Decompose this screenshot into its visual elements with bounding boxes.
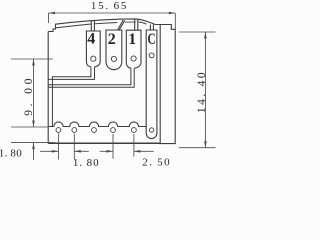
svg-text:14. 40: 14. 40 — [196, 70, 208, 113]
svg-text:2. 50: 2. 50 — [142, 157, 171, 169]
svg-text:15. 65: 15. 65 — [91, 0, 128, 12]
svg-text:9. 00: 9. 00 — [23, 75, 35, 116]
svg-text:1. 80: 1. 80 — [0, 147, 22, 159]
svg-text:C: C — [148, 31, 156, 48]
svg-text:2: 2 — [108, 31, 116, 48]
svg-text:4: 4 — [87, 31, 95, 48]
svg-text:1: 1 — [128, 31, 136, 48]
svg-text:1. 80: 1. 80 — [73, 157, 100, 168]
